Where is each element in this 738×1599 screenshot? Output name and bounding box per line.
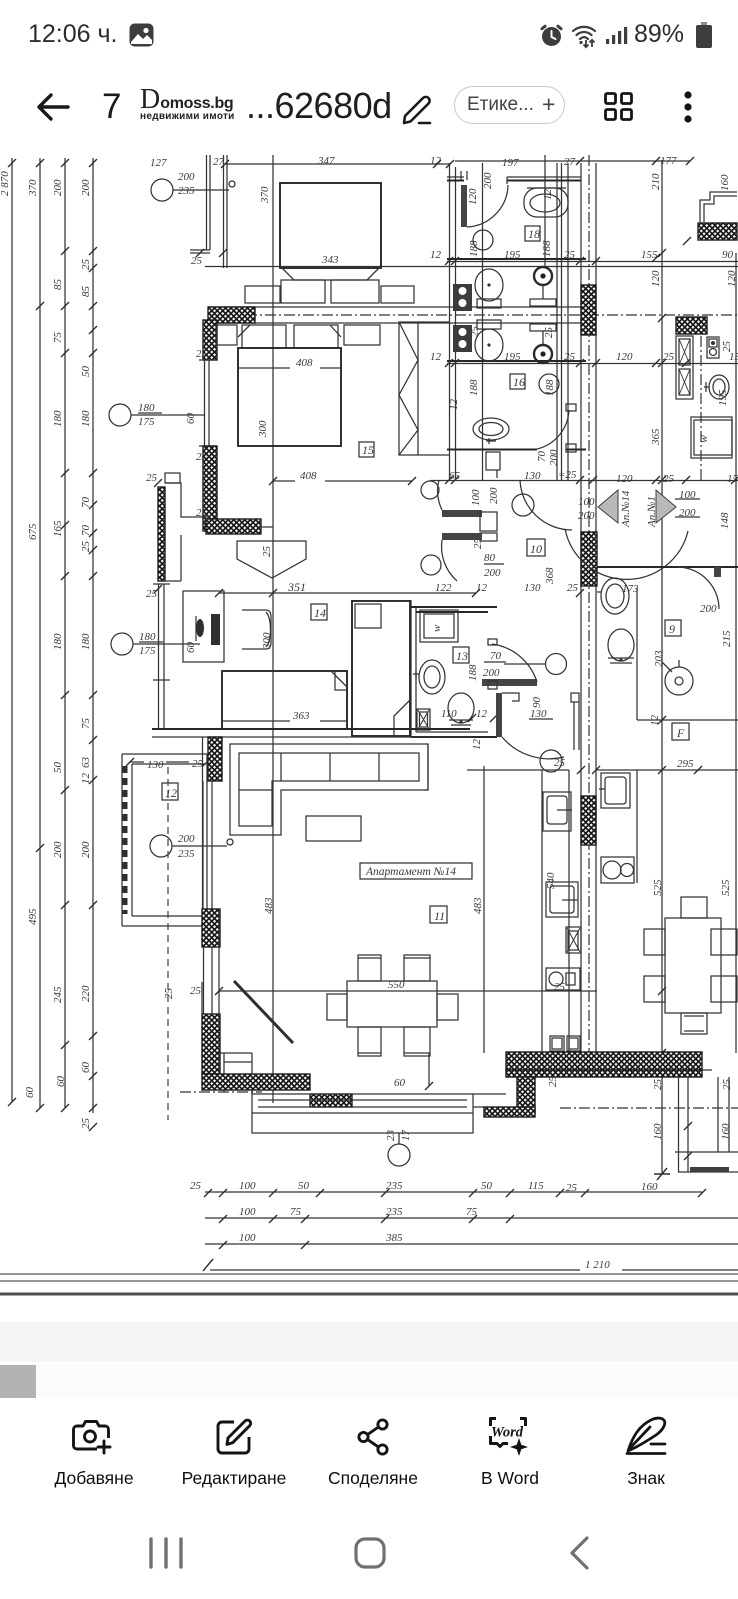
bedroom15 west wall hatch upper [203, 320, 217, 360]
label 25 kitchen [554, 757, 600, 993]
svg-text:180: 180 [52, 633, 64, 650]
svg-text:60: 60 [24, 1087, 36, 1099]
svg-text:483: 483 [472, 897, 484, 914]
south-west hatch band [202, 1074, 310, 1090]
svg-text:12: 12 [476, 708, 488, 720]
bathroom 16 sink [473, 418, 509, 444]
svg-text:188: 188 [544, 379, 556, 396]
svg-text:235: 235 [386, 1206, 403, 1218]
neighbour kitchen centerline [700, 317, 702, 480]
room tag F [649, 715, 689, 741]
labels 110 12 [441, 708, 498, 750]
right edge line x=736 [735, 253, 737, 1053]
neighbour sink [704, 341, 733, 407]
svg-text:120: 120 [726, 270, 738, 287]
status bar [0, 0, 738, 1]
label 408 lower [269, 470, 416, 485]
WC washbasin block upper [453, 284, 472, 311]
bathroom 16 wall tab [486, 452, 500, 478]
svg-text:12: 12 [542, 189, 554, 201]
svg-text:w: w [696, 435, 710, 443]
bottom dim row 1 [190, 1180, 706, 1197]
corridor wall x=581/596 [581, 163, 596, 1052]
svg-text:235: 235 [178, 185, 195, 197]
washing machine 13 [420, 610, 458, 642]
svg-text:25: 25 [196, 348, 208, 360]
svg-text:120: 120 [616, 473, 633, 485]
svg-text:Ап.№14: Ап.№14 [620, 490, 632, 528]
room tag 14 [311, 604, 327, 620]
balcony callout circle [150, 833, 233, 860]
svg-text:=25: =25 [558, 469, 577, 481]
long vertical axis x=273 [272, 155, 274, 1103]
hall entry arc [512, 480, 572, 530]
bathroom wall y=363 [447, 360, 586, 362]
svg-text:12: 12 [448, 399, 460, 411]
kitchen sink top [543, 792, 572, 831]
svg-text:90: 90 [722, 249, 734, 261]
room tag 12 [162, 783, 178, 800]
svg-text:188: 188 [468, 379, 480, 396]
room tag 11 [430, 906, 447, 923]
svg-text:12: 12 [80, 773, 92, 785]
sign [623, 1412, 669, 1460]
svg-text:130: 130 [147, 759, 164, 771]
upper bedroom bed [280, 183, 381, 303]
label pill [454, 86, 565, 124]
bedroom15 bed [238, 348, 341, 446]
bedroom14 west wall lower [159, 680, 165, 730]
svg-text:173: 173 [622, 583, 639, 595]
WC shower upper [530, 267, 556, 306]
bottom dim row 3 [205, 1232, 738, 1249]
svg-text:100: 100 [578, 496, 595, 508]
dims above y=593 line [215, 580, 584, 597]
svg-text:220: 220 [80, 985, 92, 1002]
bedroom15 west wall hatch lower [203, 446, 217, 531]
svg-text:25: 25 [547, 1076, 559, 1088]
living west wall hatch [202, 909, 220, 947]
svg-text:203: 203 [653, 650, 665, 667]
svg-text:70: 70 [490, 650, 502, 662]
edit pencil [399, 94, 435, 126]
WC washbasin block lower [453, 325, 472, 352]
svg-text:300: 300 [261, 632, 273, 650]
coffee table [306, 816, 361, 841]
top-left window wall [190, 155, 227, 268]
svg-text:27: 27 [213, 156, 225, 168]
neighbour toilet [608, 629, 634, 663]
svg-text:2 870: 2 870 [0, 171, 11, 196]
right balcony [652, 1070, 738, 1172]
dimension chain line 3 [52, 158, 69, 1112]
bathroom 18 door [447, 171, 581, 257]
kitchen stove [546, 882, 578, 917]
svg-text:25: 25 [564, 249, 576, 261]
svg-text:675: 675 [27, 523, 39, 540]
svg-text:75: 75 [290, 1206, 302, 1218]
neighbour kitchen hatch [676, 317, 707, 334]
svg-text:120: 120 [616, 351, 633, 363]
neighbour kitchen cabinets [676, 336, 693, 399]
svg-text:13: 13 [456, 649, 468, 663]
bedroom14 bed horizontal [222, 671, 347, 729]
svg-text:11: 11 [434, 909, 445, 923]
bathroom 18 dims [430, 237, 734, 265]
overflow dots [682, 90, 694, 124]
hall dim labels y=480 [449, 469, 738, 485]
svg-text:100: 100 [470, 489, 482, 506]
gallery icon [129, 23, 154, 47]
bedroom15 wardrobe [399, 322, 449, 455]
svg-text:160: 160 [641, 1181, 658, 1193]
neighbour bath sink [597, 578, 639, 614]
svg-text:363: 363 [292, 710, 310, 722]
svg-text:100: 100 [239, 1232, 256, 1244]
svg-text:200: 200 [488, 487, 500, 504]
svg-text:60: 60 [80, 1062, 92, 1074]
svg-text:12: 12 [430, 249, 442, 261]
svg-text:483: 483 [263, 897, 275, 914]
bedroom15 pillows [238, 325, 341, 348]
neighbour dining table [644, 897, 737, 1034]
bottom dim row 4 [210, 1259, 738, 1271]
svg-text:27: 27 [564, 156, 576, 168]
svg-text:12: 12 [430, 155, 442, 167]
dimension line x=662 [654, 160, 670, 1180]
bathroom 18 sink [473, 230, 493, 250]
svg-text:85: 85 [52, 279, 64, 291]
svg-text:25: 25 [469, 326, 481, 338]
svg-text:25: 25 [80, 541, 92, 553]
svg-text:197: 197 [502, 157, 519, 169]
label 408 [238, 357, 341, 369]
svg-text:25: 25 [721, 341, 733, 353]
corridor wall hatch lower [581, 796, 596, 845]
svg-text:200: 200 [178, 171, 195, 183]
neighbour stove [707, 337, 719, 358]
terrace band hatch [473, 1052, 702, 1107]
room tag 13 [453, 647, 469, 663]
svg-text:408: 408 [300, 470, 317, 482]
svg-text:65: 65 [449, 470, 461, 482]
WC toilet lower [475, 320, 503, 361]
action bar [0, 0, 738, 1]
svg-text:408: 408 [296, 357, 313, 369]
svg-text:110: 110 [441, 708, 457, 720]
bedroom14 bed vertical [352, 601, 410, 736]
svg-text:25: 25 [652, 1079, 664, 1091]
bedroom14 window [153, 584, 170, 680]
WC small dims [430, 326, 738, 368]
neighbour kitchen lower [599, 770, 637, 883]
balcony circle callout [385, 1130, 412, 1167]
svg-text:12: 12 [471, 739, 483, 751]
bathroom 16 circle [468, 374, 559, 396]
svg-text:180: 180 [138, 402, 155, 414]
svg-text:120: 120 [650, 270, 662, 287]
border rules [0, 1259, 738, 1294]
kitchen bottom boxes [550, 1036, 580, 1051]
svg-text:25: 25 [146, 588, 158, 600]
svg-text:385: 385 [385, 1232, 403, 1244]
svg-text:16: 16 [513, 375, 525, 389]
svg-text:25: 25 [80, 1118, 92, 1130]
svg-text:75: 75 [80, 718, 92, 730]
svg-text:15: 15 [362, 443, 374, 457]
Domoss logo [140, 86, 244, 122]
svg-text:343: 343 [321, 254, 339, 266]
svg-text:23: 23 [385, 1130, 397, 1142]
bathroom 18 toilet [524, 188, 568, 217]
svg-text:200: 200 [482, 172, 494, 189]
bedroom14 west wall hatch [146, 472, 207, 600]
svg-text:25: 25 [146, 472, 158, 484]
svg-text:195: 195 [504, 351, 521, 363]
svg-text:15: 15 [727, 473, 738, 485]
svg-text:12: 12 [165, 786, 177, 800]
svg-text:210: 210 [650, 173, 662, 190]
desk chair [242, 610, 271, 649]
svg-text:122: 122 [435, 582, 452, 594]
neighbour bath 9 walls [637, 588, 738, 720]
svg-text:495: 495 [27, 908, 39, 925]
svg-text:10: 10 [530, 542, 542, 556]
svg-text:60: 60 [55, 1076, 67, 1088]
south hatch small [310, 1094, 352, 1107]
gray strip [0, 1322, 738, 1362]
svg-text:70: 70 [80, 497, 92, 509]
bathroom axis lines [483, 155, 558, 480]
corridor wall hatch upper [581, 285, 596, 335]
svg-text:200: 200 [578, 510, 595, 522]
svg-text:180: 180 [80, 410, 92, 427]
svg-text:25: 25 [191, 255, 203, 267]
svg-text:25: 25 [554, 757, 566, 769]
svg-text:9: 9 [669, 622, 675, 636]
share [350, 1414, 396, 1460]
grid icon [602, 90, 635, 123]
svg-text:351: 351 [287, 580, 306, 594]
svg-text:130: 130 [524, 470, 541, 482]
svg-text:200: 200 [80, 179, 92, 196]
svg-text:18: 18 [528, 227, 540, 241]
bathroom 13 sink [413, 660, 445, 694]
svg-text:12: 12 [430, 351, 442, 363]
bathroom 13 walls [411, 600, 497, 738]
svg-text:100: 100 [239, 1206, 256, 1218]
dimension chain line 1 [0, 158, 16, 1106]
room tag 15 [359, 442, 374, 457]
neighbour bath door [677, 567, 733, 647]
svg-text:165: 165 [52, 520, 64, 537]
svg-text:70: 70 [536, 451, 548, 463]
svg-text:200: 200 [700, 603, 717, 615]
svg-text:245: 245 [52, 986, 64, 1003]
alarm icon [540, 24, 563, 47]
svg-text:120: 120 [467, 188, 479, 205]
WC toilet upper [475, 269, 503, 308]
bathroom bottom wall y=478 [447, 449, 586, 451]
label 25 south [163, 988, 559, 1088]
svg-text:160: 160 [652, 1123, 664, 1140]
svg-text:295: 295 [677, 758, 694, 770]
south-east vertical hatch [517, 1077, 535, 1113]
svg-text:130: 130 [530, 708, 547, 720]
svg-text:25: 25 [564, 351, 576, 363]
svg-text:17: 17 [400, 1130, 412, 1142]
svg-text:25: 25 [190, 1180, 202, 1192]
party wall hatch left [208, 307, 255, 323]
hall lower door bar [421, 533, 482, 581]
kitchen oven [566, 927, 581, 953]
svg-text:160: 160 [720, 1123, 732, 1140]
svg-text:365: 365 [650, 428, 662, 446]
svg-text:25: 25 [663, 473, 675, 485]
svg-text:25: 25 [80, 259, 92, 271]
top dimension line [150, 155, 694, 169]
wifi icon [571, 23, 601, 49]
svg-text:200: 200 [52, 179, 64, 196]
party wall centerline y=315 [208, 314, 738, 316]
svg-text:75: 75 [466, 1206, 478, 1218]
hall top door bar [421, 480, 500, 517]
svg-text:60: 60 [185, 642, 197, 654]
svg-text:130: 130 [524, 582, 541, 594]
svg-text:200: 200 [80, 841, 92, 858]
bottom nav [0, 0, 738, 2]
window callout circle 200/235 [151, 171, 235, 201]
entrance door arc [565, 529, 688, 579]
hall jamb [480, 512, 497, 541]
bathroom 16 tag [510, 374, 525, 389]
dimension line y=480 [430, 480, 738, 482]
desk [183, 591, 224, 662]
svg-text:215: 215 [721, 630, 733, 647]
svg-text:12: 12 [649, 715, 661, 727]
label 25 living [190, 985, 223, 997]
svg-text:50: 50 [80, 366, 92, 378]
bedroom15 nightstands [216, 325, 237, 345]
svg-text:368: 368 [544, 567, 556, 585]
svg-text:50: 50 [298, 1180, 310, 1192]
svg-text:85: 85 [80, 286, 92, 298]
add photo [70, 1414, 116, 1460]
living room line x=474 [483, 766, 485, 1053]
svg-text:25: 25 [566, 1182, 578, 1194]
room tag 10 [527, 539, 545, 556]
dimension chain line 2 [27, 158, 44, 1112]
svg-text:90: 90 [531, 697, 543, 709]
word [484, 1412, 532, 1460]
neighbour hall line [467, 769, 738, 771]
balcony 12 [122, 754, 211, 926]
svg-text:180: 180 [80, 633, 92, 650]
svg-text:1 210: 1 210 [585, 1259, 610, 1271]
svg-text:525: 525 [652, 879, 664, 896]
back arrow [36, 92, 70, 122]
svg-text:195: 195 [504, 249, 521, 261]
dimension chain line 4 [80, 158, 97, 1131]
svg-text:115: 115 [528, 1180, 544, 1192]
svg-text:200: 200 [483, 667, 500, 679]
wall x=450 double [450, 163, 456, 480]
svg-text:525: 525 [720, 879, 732, 896]
balcony centerline x=168 [167, 767, 169, 1120]
svg-text:50: 50 [52, 762, 64, 774]
svg-text:63: 63 [80, 757, 92, 769]
battery [695, 22, 713, 49]
label 100/200 right [578, 496, 595, 522]
svg-text:188: 188 [541, 240, 553, 257]
bathroom 13 toilet [448, 693, 474, 725]
window callout circle 180/175 upper [109, 402, 204, 428]
svg-text:25: 25 [190, 985, 202, 997]
svg-text:w: w [431, 624, 443, 632]
svg-text:188: 188 [467, 664, 479, 681]
svg-text:370: 370 [259, 186, 271, 204]
divider hatch 15/14 [196, 507, 273, 534]
svg-text:180: 180 [139, 631, 156, 643]
living entry door [496, 693, 564, 772]
svg-text:195: 195 [717, 389, 729, 406]
room divider line y=593 [219, 592, 476, 594]
toolbar [0, 0, 738, 2]
hall wall right jambs [571, 693, 579, 750]
svg-text:25: 25 [192, 758, 204, 770]
svg-text:Апартамент №14: Апартамент №14 [365, 866, 456, 878]
upper bedroom nightstands [245, 286, 280, 303]
dining table [327, 955, 458, 1056]
svg-text:235: 235 [386, 1180, 403, 1192]
svg-text:60: 60 [185, 413, 197, 425]
svg-text:60: 60 [394, 1077, 406, 1089]
svg-text:25: 25 [663, 351, 675, 363]
svg-text:160: 160 [719, 174, 731, 191]
window callout circle 180/175 lower [111, 631, 200, 657]
svg-text:14: 14 [314, 606, 326, 620]
living west window wall [203, 737, 223, 909]
svg-text:75: 75 [52, 332, 64, 344]
main horizontal wall y=266 [205, 266, 738, 268]
dash-dot south [180, 1091, 262, 1093]
svg-text:80: 80 [484, 552, 496, 564]
label 525 pair [652, 879, 732, 896]
bathroom 13 door [467, 639, 567, 689]
bathroom east wall [562, 163, 569, 480]
apartment label [360, 863, 472, 879]
top-right step wall [698, 192, 737, 240]
svg-text:25: 25 [554, 981, 566, 993]
entrance markers [598, 489, 731, 529]
room tag 9 [665, 620, 681, 636]
svg-text:370: 370 [27, 179, 39, 197]
kitchen sink2 [546, 968, 580, 990]
label 80/200 [484, 552, 504, 579]
svg-text:25: 25 [721, 1079, 733, 1091]
svg-text:180: 180 [52, 410, 64, 427]
svg-text:175: 175 [138, 416, 155, 428]
corridor centerline [588, 155, 590, 1052]
svg-text:200: 200 [484, 567, 501, 579]
svg-text:300: 300 [257, 420, 269, 438]
svg-text:148: 148 [719, 512, 731, 529]
svg-text:25: 25 [567, 582, 579, 594]
signal bars [606, 26, 628, 46]
bedroom15 window [196, 348, 217, 463]
svg-text:347: 347 [317, 155, 335, 167]
neighbour washing machine W [691, 417, 732, 458]
